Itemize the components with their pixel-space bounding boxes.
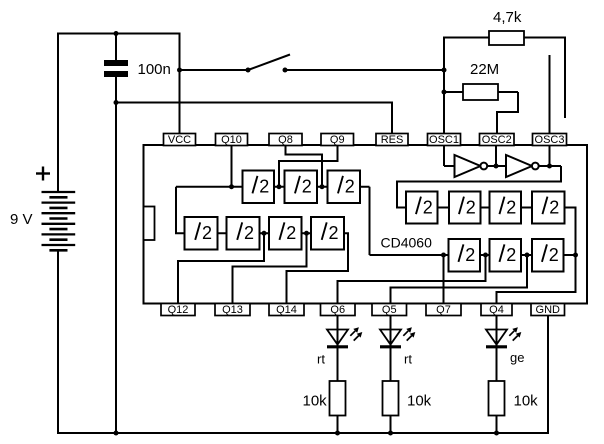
svg-text:rt: rt [404, 352, 412, 367]
svg-text:Q12: Q12 [168, 304, 189, 316]
svg-text:Q8: Q8 [278, 134, 293, 146]
svg-text:2: 2 [244, 223, 254, 243]
svg-text:2: 2 [549, 197, 559, 217]
svg-text:22M: 22M [470, 61, 499, 78]
svg-text:Q7: Q7 [436, 304, 451, 316]
svg-text:OSC3: OSC3 [535, 134, 565, 146]
svg-text:rt: rt [317, 352, 325, 367]
svg-text:10k: 10k [407, 393, 432, 410]
svg-text:2: 2 [302, 177, 312, 197]
svg-text:2: 2 [466, 197, 476, 217]
svg-text:Q4: Q4 [489, 304, 504, 316]
svg-text:2: 2 [329, 223, 339, 243]
svg-text:2: 2 [423, 197, 433, 217]
svg-text:10k: 10k [303, 393, 328, 410]
svg-text:2: 2 [465, 245, 475, 265]
svg-text:CD4060: CD4060 [381, 235, 433, 251]
svg-text:100n: 100n [138, 61, 171, 78]
svg-text:Q10: Q10 [221, 134, 242, 146]
svg-text:9 V: 9 V [10, 211, 33, 228]
svg-text:Q13: Q13 [222, 304, 243, 316]
svg-text:10k: 10k [514, 393, 539, 410]
svg-text:ge: ge [510, 350, 524, 365]
svg-text:OSC2: OSC2 [482, 134, 512, 146]
svg-text:2: 2 [549, 245, 559, 265]
svg-text:Q6: Q6 [330, 304, 345, 316]
svg-text:4,7k: 4,7k [493, 9, 522, 26]
svg-text:2: 2 [286, 223, 296, 243]
svg-text:2: 2 [506, 245, 516, 265]
svg-text:RES: RES [381, 134, 404, 146]
svg-text:Q5: Q5 [382, 304, 397, 316]
svg-text:OSC1: OSC1 [429, 134, 459, 146]
svg-text:GND: GND [536, 304, 561, 316]
svg-text:Q9: Q9 [330, 134, 345, 146]
svg-text:2: 2 [259, 177, 269, 197]
svg-text:Q14: Q14 [276, 304, 297, 316]
svg-text:2: 2 [202, 223, 212, 243]
svg-text:2: 2 [345, 177, 355, 197]
svg-text:VCC: VCC [168, 134, 191, 146]
svg-text:2: 2 [506, 197, 516, 217]
